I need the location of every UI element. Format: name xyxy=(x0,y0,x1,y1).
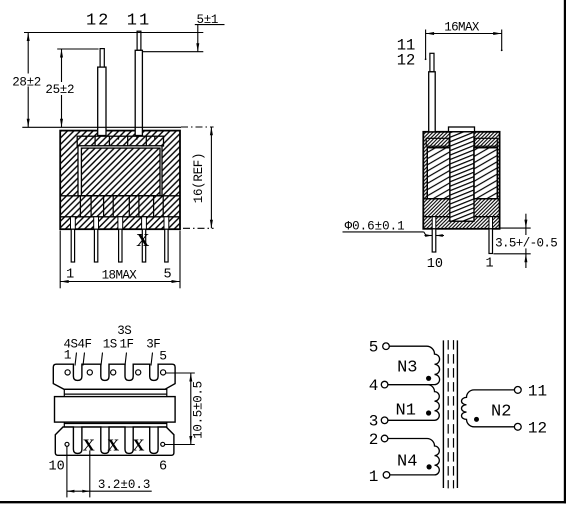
svg-text:11: 11 xyxy=(127,11,151,30)
svg-text:1: 1 xyxy=(369,468,379,486)
svg-text:1: 1 xyxy=(66,268,74,283)
svg-text:18MAX: 18MAX xyxy=(102,269,138,283)
svg-text:1S: 1S xyxy=(103,338,117,352)
svg-text:6: 6 xyxy=(159,460,167,475)
svg-text:N2: N2 xyxy=(491,403,511,422)
svg-text:5: 5 xyxy=(369,339,379,357)
svg-text:16MAX: 16MAX xyxy=(444,21,480,35)
svg-text:3F: 3F xyxy=(146,338,160,352)
svg-text:1F: 1F xyxy=(120,338,134,352)
svg-text:12: 12 xyxy=(86,11,110,30)
svg-text:10.5±0.5: 10.5±0.5 xyxy=(191,381,205,439)
svg-text:12: 12 xyxy=(397,52,416,70)
svg-text:N4: N4 xyxy=(397,453,417,472)
svg-text:X: X xyxy=(136,230,149,250)
svg-text:4: 4 xyxy=(369,377,379,395)
svg-text:3: 3 xyxy=(369,413,379,431)
svg-text:1: 1 xyxy=(64,348,72,363)
svg-text:3.2±0.3: 3.2±0.3 xyxy=(98,478,151,492)
svg-text:N1: N1 xyxy=(396,402,416,421)
svg-text:10: 10 xyxy=(427,257,443,272)
svg-text:5: 5 xyxy=(159,349,167,364)
svg-text:2: 2 xyxy=(369,431,379,449)
svg-text:1: 1 xyxy=(485,257,493,272)
svg-text:28±2: 28±2 xyxy=(12,75,41,89)
svg-text:X: X xyxy=(83,436,95,455)
svg-text:16(REF): 16(REF) xyxy=(192,153,206,203)
svg-text:X: X xyxy=(132,436,144,455)
svg-text:5: 5 xyxy=(164,268,172,283)
svg-text:12: 12 xyxy=(528,419,547,437)
svg-text:X: X xyxy=(107,436,119,455)
svg-text:10: 10 xyxy=(48,460,64,475)
svg-text:N3: N3 xyxy=(397,359,417,378)
svg-text:3S: 3S xyxy=(117,324,131,338)
svg-text:11: 11 xyxy=(528,382,547,400)
svg-text:25±2: 25±2 xyxy=(45,83,74,97)
svg-text:3.5+/-0.5: 3.5+/-0.5 xyxy=(495,236,557,250)
